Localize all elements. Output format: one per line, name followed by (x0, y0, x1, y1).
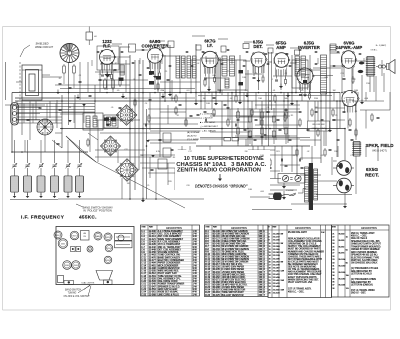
svg-text:6W: 6W (281, 252, 284, 254)
svg-text:GRID CAP & LEAD: GRID CAP & LEAD (158, 288, 178, 291)
svg-text:22: 22 (269, 280, 271, 282)
svg-text:ITEM: ITEM (206, 226, 210, 228)
svg-text:.25: .25 (335, 115, 338, 117)
svg-text:7: 7 (269, 234, 270, 236)
svg-text:R8: R8 (69, 107, 71, 109)
svg-text:R12: R12 (352, 79, 355, 81)
svg-text:1M: 1M (315, 107, 318, 109)
svg-text:455KC.: 455KC. (79, 215, 97, 220)
svg-text:PAPER CONDENSER: PAPER CONDENSER (158, 262, 181, 265)
svg-text:LETTER M (OMEGA): LETTER M (OMEGA) (351, 283, 373, 286)
svg-text:10M: 10M (242, 77, 246, 79)
svg-text:95-1082: 95-1082 (339, 278, 346, 280)
svg-text:I.F.: I.F. (207, 43, 213, 48)
svg-text:10: 10 (269, 243, 271, 245)
svg-text:3W: 3W (281, 243, 284, 245)
svg-text:R7: R7 (115, 63, 117, 65)
svg-text:INVERTER: INVERTER (298, 45, 321, 50)
svg-text:PART NO. S-12765 USED: PART NO. S-12765 USED (351, 259, 378, 262)
svg-text:R-26: R-26 (205, 295, 211, 297)
svg-text:.05 MFD 200V PAPER: .05 MFD 200V PAPER (222, 266, 245, 269)
svg-text:C-25: C-25 (141, 294, 147, 296)
svg-text:DESCRIPTION: DESCRIPTION (231, 228, 247, 230)
svg-text:I.F. FREQUENCY: I.F. FREQUENCY (21, 215, 65, 220)
svg-text:C2: C2 (285, 73, 287, 75)
svg-text:FOR THIS CHASSIS. USE ONLY: FOR THIS CHASSIS. USE ONLY (288, 273, 322, 276)
svg-text:34: 34 (332, 275, 334, 277)
svg-text:LINE CORD & PLUG: LINE CORD & PLUG (158, 294, 179, 296)
svg-text:22-1234: 22-1234 (273, 240, 280, 242)
svg-text:WIRE CIRCUIT: WIRE CIRCUIT (35, 45, 53, 49)
svg-text:C9: C9 (165, 71, 167, 73)
svg-text:23: 23 (332, 240, 334, 242)
svg-text:R4: R4 (311, 71, 313, 73)
svg-text:POWER TRANSFORMER: POWER TRANSFORMER (158, 283, 185, 286)
svg-text:22-1455: 22-1455 (273, 280, 280, 282)
svg-text:26: 26 (269, 292, 271, 294)
svg-text:R21: R21 (276, 151, 279, 153)
svg-text:14M: 14M (212, 75, 216, 77)
svg-text:22-568: 22-568 (149, 294, 157, 296)
svg-text:(2) THOUSANDS OHMS: (2) THOUSANDS OHMS (351, 278, 376, 281)
svg-text:95-900: 95-900 (339, 234, 345, 236)
svg-text:10M: 10M (260, 155, 264, 157)
svg-text:SUPPLY. THE COIL ASSEMBLY: SUPPLY. THE COIL ASSEMBLY (288, 245, 321, 248)
svg-text:CHASSIS. THESE PARTS ARE: CHASSIS. THESE PARTS ARE (288, 255, 320, 258)
svg-text:C6: C6 (145, 103, 147, 105)
svg-text:22-1268: 22-1268 (273, 246, 280, 248)
svg-text:(C) F. BAND: (C) F. BAND (187, 138, 199, 141)
svg-text:CARBON RESISTOR: CARBON RESISTOR (158, 267, 180, 270)
svg-text:C1: C1 (79, 75, 81, 77)
svg-text:(1) THOUSANDS CYCLES: (1) THOUSANDS CYCLES (351, 267, 379, 270)
svg-text:9W: 9W (281, 261, 284, 263)
svg-text:50 M OHMS 1W CARBON: 50 M OHMS 1W CARBON (222, 245, 249, 248)
svg-text:A1: A1 (94, 35, 96, 38)
svg-text:95-926: 95-926 (339, 240, 345, 242)
svg-text:.02: .02 (307, 151, 310, 153)
svg-text:22: 22 (332, 237, 334, 239)
svg-text:(A) NORMAL: (A) NORMAL (187, 131, 201, 134)
svg-text:DIAL OF TELLS: DIAL OF TELLS (351, 237, 368, 240)
svg-text:R1: R1 (177, 115, 179, 117)
svg-text:SPEAKER 49-102 (12 IN.): SPEAKER 49-102 (12 IN.) (351, 254, 378, 257)
svg-text:2&PWR.-AMP: 2&PWR.-AMP (336, 45, 363, 50)
svg-text:9: 9 (269, 240, 270, 242)
svg-text:24: 24 (269, 286, 271, 288)
svg-text:25 M OHMS 2W CARBON: 25 M OHMS 2W CARBON (222, 261, 249, 264)
svg-text:C17: C17 (188, 151, 191, 153)
svg-text:REPLACEMENT OSCILLATOR: REPLACEMENT OSCILLATOR (288, 238, 320, 241)
svg-text:DESCRIPTION: DESCRIPTION (295, 228, 311, 230)
svg-text:AMP: AMP (276, 45, 286, 50)
svg-text:ON-OFF SW.: ON-OFF SW. (312, 124, 325, 126)
svg-text:WAVE TRAP ASSEMBLY: WAVE TRAP ASSEMBLY (158, 238, 184, 241)
svg-text:17: 17 (269, 265, 271, 267)
svg-text:IN “POLICE” POSITION: IN “POLICE” POSITION (83, 208, 112, 212)
svg-text:22-1472: 22-1472 (273, 283, 280, 285)
svg-text:ITEM: ITEM (142, 226, 146, 228)
svg-text:1ST I.F. TRANS. 455KC: 1ST I.F. TRANS. 455KC (351, 289, 375, 292)
svg-text:ON-OFF & VOL SWITCH: ON-OFF & VOL SWITCH (64, 296, 90, 298)
svg-text:27: 27 (332, 253, 334, 255)
svg-text:22-1370: 22-1370 (273, 265, 280, 267)
svg-text:25: 25 (332, 246, 334, 248)
svg-text:3M: 3M (149, 73, 152, 75)
svg-text:26: 26 (332, 250, 334, 252)
svg-text:29: 29 (332, 259, 334, 261)
svg-text:455 K.C. - OSC.: 455 K.C. - OSC. (351, 236, 368, 238)
svg-text:22-1421: 22-1421 (273, 274, 280, 276)
svg-text:63-325: 63-325 (213, 295, 221, 297)
svg-text:12W: 12W (281, 271, 285, 273)
svg-text:AND CHASSIS NUMBER.: AND CHASSIS NUMBER. (351, 251, 378, 254)
svg-text:DENOTES CHASSIS “GROUND”: DENOTES CHASSIS “GROUND” (195, 183, 248, 188)
svg-text:1M: 1M (127, 183, 130, 185)
svg-text:60 CYCLE PARTS AND MUST: 60 CYCLE PARTS AND MUST (288, 260, 319, 263)
svg-text:.05: .05 (133, 79, 136, 81)
svg-text:22-1438: 22-1438 (273, 277, 280, 279)
svg-text:2ND I.F. TRANS ASSY: 2ND I.F. TRANS ASSY (158, 246, 181, 249)
svg-text:(B) AUTO: (B) AUTO (187, 135, 197, 138)
svg-text:95-1030: 95-1030 (339, 266, 346, 268)
svg-text:2ND I.F. - DET.: 2ND I.F. - DET. (351, 293, 366, 295)
svg-text:MICA CONDENSER: MICA CONDENSER (158, 264, 179, 267)
svg-text:95-432 DIAL ASSY: 95-432 DIAL ASSY (288, 231, 308, 234)
svg-text:BALLAST RESISTOR: BALLAST RESISTOR (222, 294, 244, 297)
svg-text:DIAL LIGHTS: DIAL LIGHTS (82, 281, 95, 284)
svg-text:3M: 3M (333, 90, 336, 92)
svg-text:0W: 0W (281, 234, 284, 236)
svg-text:36: 36 (332, 282, 334, 284)
svg-text:.01 MFD 600V PAPER: .01 MFD 600V PAPER (222, 286, 245, 289)
svg-text:C8: C8 (267, 107, 269, 109)
svg-text:.006: .006 (324, 77, 328, 79)
svg-text:C3: C3 (355, 111, 357, 113)
svg-text:SPEAKER FIELD COIL, 845: SPEAKER FIELD COIL, 845 (351, 240, 380, 243)
svg-text:25: 25 (269, 289, 271, 291)
svg-text:22-1302: 22-1302 (273, 252, 280, 254)
svg-text:22-1251: 22-1251 (273, 243, 280, 245)
svg-text:ORDER BY PART NUMBER: ORDER BY PART NUMBER (351, 248, 380, 251)
svg-text:RECT.: RECT. (365, 173, 379, 179)
svg-text:10M: 10M (354, 90, 358, 92)
svg-text:2-W: 2-W (321, 232, 325, 234)
svg-text:11: 11 (269, 246, 271, 248)
svg-text:50M: 50M (217, 90, 221, 92)
svg-text:ARE DENOTED BY: ARE DENOTED BY (351, 281, 371, 284)
svg-text:455 K.C. - OSC.: 455 K.C. - OSC. (288, 291, 305, 293)
svg-text:ON CHASSIS 10A1 ONLY.: ON CHASSIS 10A1 ONLY. (351, 262, 378, 265)
svg-text:.25: .25 (147, 185, 150, 187)
svg-text:B+ 5 (AMP): B+ 5 (AMP) (376, 44, 387, 47)
svg-text:25M: 25M (366, 83, 370, 85)
svg-text:DET. COIL ASSEMBLY: DET. COIL ASSEMBLY (158, 248, 182, 251)
svg-text:22-1336: 22-1336 (273, 258, 280, 260)
svg-text:25M: 25M (314, 98, 318, 100)
svg-text:2M: 2M (245, 90, 248, 92)
svg-text:R19: R19 (168, 181, 171, 183)
svg-text:R.F. COIL ASSEMBLY: R.F. COIL ASSEMBLY (158, 241, 181, 244)
svg-text:95-1004: 95-1004 (339, 259, 346, 261)
svg-text:95-1108: 95-1108 (339, 285, 345, 287)
svg-text:.1: .1 (271, 79, 273, 81)
svg-text:AND ALIGNMENT PROCEDURE: AND ALIGNMENT PROCEDURE (288, 271, 322, 274)
svg-text:ON B.C.: ON B.C. (370, 50, 378, 52)
svg-text:.25 MFD 200V PAPER: .25 MFD 200V PAPER (222, 271, 245, 274)
svg-text:DESCRIPTION: DESCRIPTION (166, 228, 182, 230)
svg-text:23: 23 (269, 283, 271, 285)
svg-text:22-1285: 22-1285 (273, 249, 280, 251)
svg-text:22-1387: 22-1387 (273, 268, 280, 270)
svg-text:ELECTRO DYNAMIC TYPE: ELECTRO DYNAMIC TYPE (351, 256, 380, 259)
svg-text:18: 18 (269, 268, 271, 270)
svg-text:DIAL DRIVE CORD: DIAL DRIVE CORD (158, 280, 178, 283)
svg-text:0.1 MFD 400V PAPER: 0.1 MFD 400V PAPER (222, 268, 245, 271)
svg-text:95-978: 95-978 (339, 253, 345, 255)
svg-text:20: 20 (269, 274, 271, 276)
svg-text:31: 31 (332, 266, 334, 268)
svg-text:13: 13 (269, 252, 271, 254)
svg-text:2M: 2M (297, 79, 300, 81)
svg-text:38: 38 (332, 288, 334, 290)
svg-text:.002 MFD MICA COND.: .002 MFD MICA COND. (222, 276, 246, 279)
svg-text:C12: C12 (350, 155, 353, 157)
svg-text:R16: R16 (334, 151, 337, 153)
svg-text:845 Ω (HOT): 845 Ω (HOT) (372, 150, 387, 153)
svg-text:250M: 250M (170, 98, 175, 100)
svg-text:22-1404: 22-1404 (273, 271, 280, 273)
svg-text:R3: R3 (173, 157, 175, 159)
svg-text:24: 24 (332, 243, 334, 245)
svg-text:C20: C20 (186, 185, 189, 187)
svg-text:C7: C7 (227, 71, 229, 73)
svg-text:14: 14 (269, 255, 271, 257)
svg-text:SPKR. FIELD: SPKR. FIELD (365, 143, 394, 148)
svg-text:250 M OHMS ¼W CAR.: 250 M OHMS ¼W CAR. (222, 235, 247, 238)
svg-text:R14: R14 (108, 154, 111, 156)
svg-text:ZENITH RADIO CORPORATION: ZENITH RADIO CORPORATION (177, 168, 261, 174)
svg-text:NUMBER AND CHASSIS NUMBER: NUMBER AND CHASSIS NUMBER (288, 250, 324, 253)
svg-text:BAND SWITCH ASSY: BAND SWITCH ASSY (158, 256, 181, 259)
svg-text:21: 21 (332, 234, 334, 236)
svg-text:15W: 15W (281, 280, 285, 282)
svg-text:DIAL ASSEMBLY CPL.: DIAL ASSEMBLY CPL. (158, 277, 181, 280)
svg-text:OF THE I.F. TRANSFORMERS: OF THE I.F. TRANSFORMERS (288, 268, 320, 271)
svg-text:LETTER M KC-KILO: LETTER M KC-KILO (351, 274, 372, 276)
svg-text:50M: 50M (206, 103, 210, 105)
svg-text:22-1200: 22-1200 (273, 234, 280, 236)
svg-text:C4: C4 (99, 74, 101, 76)
svg-text:70Ω: 70Ω (258, 98, 262, 100)
svg-text:.006 MFD MICA COND.: .006 MFD MICA COND. (222, 273, 246, 276)
svg-text:22-1217: 22-1217 (273, 237, 280, 239)
svg-text:22-1506: 22-1506 (273, 289, 280, 291)
svg-text:95-1056: 95-1056 (339, 272, 346, 274)
svg-text:ANT. COIL ASSEMBLY: ANT. COIL ASSEMBLY (158, 235, 182, 238)
svg-text:8: 8 (269, 237, 270, 239)
svg-text:15: 15 (269, 258, 271, 260)
svg-text:OHMS (HOT) WITH OUTPUT: OHMS (HOT) WITH OUTPUT (351, 244, 381, 246)
svg-text:1ST I.F. TRANS ASSY: 1ST I.F. TRANS ASSY (158, 243, 181, 246)
svg-text:22-1353: 22-1353 (273, 261, 280, 263)
svg-text:22-1319: 22-1319 (273, 255, 280, 257)
svg-text:50M: 50M (248, 189, 252, 191)
svg-text:6X5G: 6X5G (366, 167, 379, 173)
svg-text:ARE INDICATED BY: ARE INDICATED BY (351, 270, 372, 273)
svg-text:OSC. COIL & BRACKET: OSC. COIL & BRACKET (158, 233, 183, 236)
svg-text:95-952: 95-952 (339, 246, 345, 248)
svg-text:TRANSFORMER MOUNTED.: TRANSFORMER MOUNTED. (351, 245, 381, 248)
svg-text:COIL ASSEMBLY FOR CHASSIS: COIL ASSEMBLY FOR CHASSIS (288, 240, 322, 243)
svg-text:SPEAKER 12 IN. E.D.: SPEAKER 12 IN. E.D. (158, 285, 181, 288)
svg-text:BAND SWITCH: BAND SWITCH (65, 288, 81, 291)
svg-text:2ND I.F. TRANS. ASSY.: 2ND I.F. TRANS. ASSY. (351, 232, 375, 235)
svg-text:21: 21 (269, 277, 271, 279)
svg-text:.05: .05 (141, 155, 144, 157)
svg-text:TONE SWITCH ASSY: TONE SWITCH ASSY (222, 291, 245, 294)
svg-text:1ST I.F. TRANS. ASSY.: 1ST I.F. TRANS. ASSY. (288, 288, 312, 291)
svg-text:3500 OHMS CANDOHM: 3500 OHMS CANDOHM (222, 253, 247, 256)
svg-text:TUNING: TUNING (68, 293, 77, 295)
svg-text:470: 470 (320, 155, 323, 157)
svg-text:MUST BE ORDERED BY PART: MUST BE ORDERED BY PART (288, 248, 320, 251)
svg-text:PILOT LIGHT 6.3V .25A: PILOT LIGHT 6.3V .25A (288, 281, 313, 284)
svg-text:33: 33 (332, 272, 334, 274)
svg-text:37: 37 (332, 285, 334, 287)
svg-text:OPERATING ON 25 CYCLE: OPERATING ON 25 CYCLE (288, 243, 317, 246)
svg-text:CANDOHM RESISTOR: CANDOHM RESISTOR (222, 289, 246, 292)
svg-text:6D8: 6D8 (57, 235, 60, 237)
svg-text:DET.: DET. (253, 44, 262, 49)
svg-text:2M: 2M (245, 151, 248, 153)
svg-text:KNOB SET (4) BAK.: KNOB SET (4) BAK. (158, 291, 179, 294)
svg-text:6C5: 6C5 (89, 249, 92, 251)
svg-text:A.F. CHOKE ASSEMBLY: A.F. CHOKE ASSEMBLY (158, 230, 183, 233)
svg-text:22-1489: 22-1489 (273, 286, 280, 288)
svg-text:TUBE SOCKET OCTAL: TUBE SOCKET OCTAL (158, 275, 183, 278)
svg-text:22-1523: 22-1523 (273, 292, 280, 294)
svg-text:35: 35 (332, 278, 334, 280)
svg-text:.01: .01 (237, 111, 240, 113)
svg-text:P.H.SW.: P.H.SW. (286, 190, 294, 192)
svg-text:BE ORDERED SEPARATELY.: BE ORDERED SEPARATELY. (288, 263, 318, 266)
svg-text:NOT INTERCHANGEABLE WITH: NOT INTERCHANGEABLE WITH (288, 258, 322, 261)
svg-text:.006: .006 (260, 191, 264, 193)
svg-text:1M: 1M (203, 98, 206, 100)
svg-text:■ = S.W. BAND: ■ = S.W. BAND (200, 121, 216, 124)
svg-text:19: 19 (269, 271, 271, 273)
svg-text:C11: C11 (340, 73, 343, 75)
svg-text:EXACT DUPLICATE PARTS: EXACT DUPLICATE PARTS (288, 276, 317, 279)
svg-text:18W: 18W (281, 289, 285, 291)
svg-text:.02: .02 (197, 63, 200, 65)
svg-text:STAMPED ON THE REAR OF: STAMPED ON THE REAR OF (288, 253, 319, 256)
svg-text:R2: R2 (181, 77, 183, 79)
svg-text:IT: IT (269, 226, 270, 228)
svg-text:C22: C22 (124, 149, 127, 151)
svg-text:R5: R5 (291, 115, 293, 117)
svg-text:R1: R1 (59, 78, 61, 80)
svg-text:R9: R9 (255, 73, 257, 75)
svg-text:△ = BROADCAST: △ = BROADCAST (199, 125, 218, 128)
svg-text:32: 32 (332, 269, 334, 271)
svg-text:.25M: .25M (160, 90, 165, 92)
svg-text:16: 16 (269, 261, 271, 263)
svg-text:ON VOL.CONT.: ON VOL.CONT. (311, 128, 326, 130)
svg-text:.05: .05 (111, 107, 114, 109)
svg-text:C5: C5 (293, 155, 295, 157)
svg-text:DESCRIPTION: DESCRIPTION (361, 228, 377, 230)
svg-text:30: 30 (332, 262, 334, 264)
svg-text:12: 12 (269, 249, 271, 251)
svg-text:28: 28 (332, 256, 334, 258)
